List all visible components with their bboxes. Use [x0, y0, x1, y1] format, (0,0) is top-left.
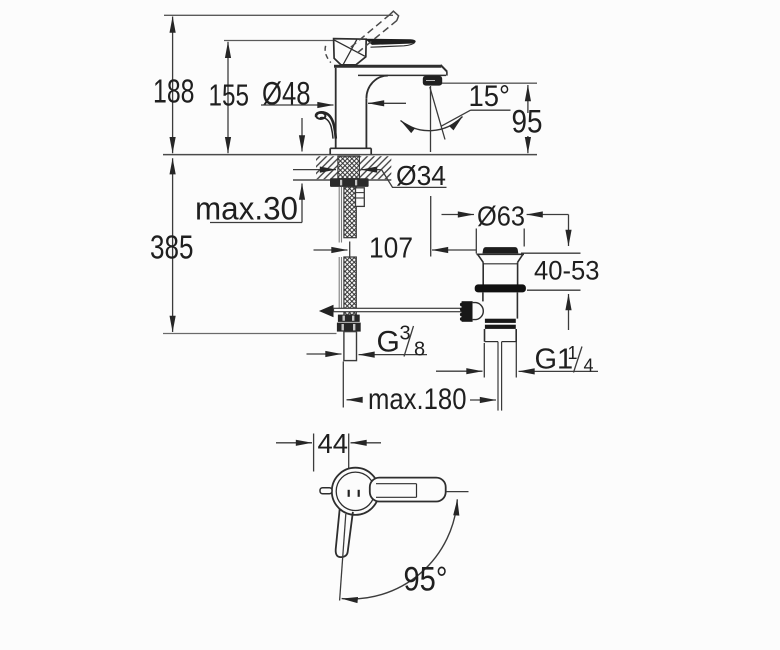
svg-text:44: 44	[318, 428, 349, 459]
drain plug top	[483, 247, 519, 253]
supply hose lower segment	[344, 257, 356, 315]
dimension G 3/8	[307, 326, 428, 357]
wire: 155 top reference line	[224, 40, 336, 42]
svg-text:385: 385	[150, 229, 194, 266]
dimension O63	[442, 215, 569, 254]
side view: screw marks in circle	[348, 490, 350, 497]
svg-text:Ø34: Ø34	[396, 160, 446, 191]
dimension 155	[227, 42, 229, 153]
drain actuator socket	[473, 303, 484, 320]
dashed raised lever position	[325, 11, 399, 62]
dimension 385	[172, 158, 174, 332]
svg-text:max.180: max.180	[368, 383, 467, 416]
side view: 95 degree angle	[340, 514, 346, 601]
side view: pull knob stub	[320, 488, 332, 494]
svg-text:Ø48: Ø48	[262, 76, 311, 112]
side view: dimension 44	[276, 434, 381, 472]
drain flange	[477, 254, 525, 284]
svg-text:188: 188	[153, 73, 195, 110]
drain body below washer	[483, 292, 518, 318]
dimension 95	[527, 85, 529, 153]
svg-text:4: 4	[584, 356, 594, 376]
svg-text:95°: 95°	[404, 561, 448, 599]
svg-text:max.30: max.30	[195, 191, 298, 227]
wire: countertop deck line	[163, 154, 537, 156]
deck hatching left block	[316, 156, 338, 179]
dimension 15 degree swivel arc	[401, 117, 463, 131]
handle block diagonals	[335, 40, 365, 56]
water stream vertical line	[430, 86, 432, 152]
drain inner pipe	[497, 342, 499, 411]
dimension 40-53	[521, 215, 581, 331]
water stream tilted 15deg line	[430, 87, 445, 140]
svg-text:G: G	[377, 326, 400, 359]
svg-text:155: 155	[209, 78, 250, 113]
drain rubber washer	[475, 284, 526, 292]
svg-text:15°: 15°	[469, 80, 511, 113]
mounting nut	[330, 178, 369, 187]
G 3/8 hose nut	[338, 315, 360, 322]
supply hose upper segment	[344, 187, 356, 238]
drain actuator knurled knob	[462, 301, 473, 322]
pop-up rod upper segment	[339, 187, 341, 309]
svg-text:8: 8	[414, 339, 425, 361]
faucet base flare	[330, 148, 371, 154]
svg-text:3: 3	[400, 323, 411, 345]
side view: inner circle	[336, 472, 374, 510]
handle lever blade	[365, 39, 416, 45]
horizontal pop-up rod to drain	[334, 308, 462, 311]
side view: lever	[370, 478, 446, 502]
drain tailpipe	[485, 329, 517, 342]
drain thread bands	[485, 319, 516, 323]
deck hatching right block	[360, 156, 392, 179]
pop-up rod pivot joint	[319, 305, 334, 317]
G 3/8 connector tube	[344, 332, 357, 361]
wire: 188 top reference line	[164, 14, 393, 16]
svg-text:40-53: 40-53	[534, 256, 600, 286]
side view: spout tube down-left	[336, 509, 353, 557]
svg-text:95: 95	[512, 104, 543, 140]
side view: body circle	[332, 468, 379, 515]
dimension 107	[314, 196, 477, 257]
wire: 385 bottom reference line	[163, 333, 337, 335]
dimension 188	[172, 17, 174, 154]
svg-text:1: 1	[568, 343, 578, 363]
dimension O34 label and arrows	[293, 170, 447, 188]
faucet body outline	[334, 65, 447, 148]
threaded shank through deck	[338, 156, 360, 179]
dimension G1 1/4	[436, 332, 598, 378]
wire: deck bottom line	[293, 179, 391, 181]
dimension max.180	[343, 362, 496, 408]
wire: spout outlet reference line (95 top)	[441, 82, 537, 84]
svg-text:107: 107	[369, 233, 413, 265]
aerator	[423, 76, 442, 86]
pop-up pull knob on body	[316, 112, 336, 138]
dimension max.30	[210, 118, 302, 223]
hose ferrule	[356, 188, 365, 207]
handle block	[334, 39, 367, 65]
svg-text:Ø63: Ø63	[477, 201, 525, 232]
